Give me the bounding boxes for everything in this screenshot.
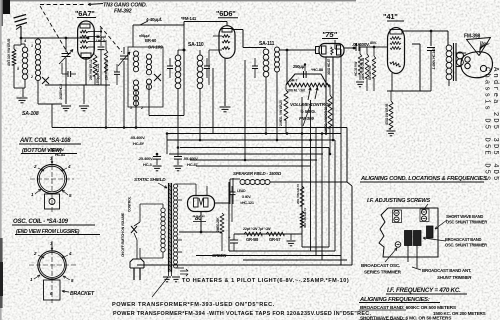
tube 6D6 envelope [219, 26, 235, 59]
tube 75 envelope [319, 44, 344, 58]
svg-text:23K ½W GR-13: 23K ½W GR-13 [105, 59, 109, 80]
svg-text:.05-400V.: .05-400V. [130, 135, 145, 140]
cap HC-3 w/ ground [153, 156, 161, 158]
svg-text:FM-399: FM-399 [299, 116, 314, 121]
svg-text:POWER TRANSFORMER*FM-394 -WITH: POWER TRANSFORMER*FM-394 -WITH VOLTAGE T… [113, 311, 371, 317]
heater wires arrow [176, 267, 185, 269]
svg-text:"80": "80" [192, 215, 206, 222]
svg-text:1350μμf HC-122: 1350μμf HC-122 [96, 63, 100, 85]
ground [65, 85, 67, 104]
power plug [130, 259, 144, 268]
svg-text:2: 2 [30, 75, 33, 79]
chassis outline [379, 208, 438, 257]
wire: antenna to grid bus y=38 [21, 37, 88, 39]
primary circuit wires [162, 204, 164, 208]
svg-text:BROADCAST BAND ANT.: BROADCAST BAND ANT. [422, 268, 471, 273]
ant coil SA-108 secondary [35, 39, 40, 44]
svg-text:"6A7": "6A7" [75, 9, 95, 18]
svg-text:SA-108: SA-108 [22, 111, 39, 117]
svg-text:≈HC-121: ≈HC-121 [240, 201, 254, 205]
svg-text:"41": "41" [383, 12, 398, 21]
resistor 20K GR-? [300, 186, 304, 206]
fixed cap near gang1 [67, 71, 69, 77]
svg-text:100 M. ¼W.: 100 M. ¼W. [287, 89, 305, 93]
transformer secondary winding [174, 184, 178, 188]
6A7 right-side parts [93, 30, 95, 38]
80 internals [194, 198, 199, 207]
cap HC-122 [100, 27, 102, 46]
pot wires [301, 97, 303, 247]
gang condenser linkage (dashed) [40, 4, 86, 6]
small caps under SA-109 [114, 71, 120, 73]
svg-text:2MEG-25K: 2MEG-25K [216, 217, 220, 232]
resistor 30K GR-74 [300, 211, 304, 227]
svg-text:80V.: 80V. [370, 41, 377, 45]
transformer primary winding [161, 208, 165, 212]
transformer core [169, 183, 172, 272]
svg-text:HC-87: HC-87 [187, 162, 199, 167]
output box right edge [351, 186, 353, 265]
volume control wiper arrows [308, 88, 311, 101]
svg-text:I.F. FREQUENCY = 470 KC.: I.F. FREQUENCY = 470 KC. [387, 287, 461, 294]
svg-text:GR-5B: GR-5B [246, 237, 258, 242]
svg-text:.01-400V.: .01-400V. [352, 42, 370, 47]
osc coil bracket [44, 280, 61, 300]
svg-text:CONTROL: CONTROL [128, 197, 132, 212]
svg-text:SA-110: SA-110 [188, 42, 204, 48]
svg-text:5: 5 [17, 67, 19, 71]
arrow from caption to transformer [152, 277, 168, 297]
shield box SA-109 [128, 47, 163, 107]
svg-text:25K ½W GR-12: 25K ½W GR-12 [89, 59, 93, 80]
svg-text:"6D6": "6D6" [216, 9, 236, 18]
svg-text:ON OFF SWITCH ON VOLUME: ON OFF SWITCH ON VOLUME [121, 212, 125, 257]
svg-text:OSC. SHUNT TRIMMER: OSC. SHUNT TRIMMER [445, 243, 487, 248]
svg-text:.1-400V. HC-140: .1-400V. HC-140 [432, 48, 436, 70]
electrolytic cap + [230, 239, 238, 241]
svg-text:Andrea 2D5 3D5 4D5: Andrea 2D5 3D5 4D5 [491, 67, 499, 182]
svg-text:GREEN: GREEN [212, 253, 227, 258]
svg-text:SHORT WAVE BAND: SHORT WAVE BAND [446, 214, 483, 219]
SW osc shunt trimmer [427, 226, 434, 238]
svg-text:GR-48 ½W: GR-48 ½W [368, 65, 372, 80]
svg-text:POWER TRANSFORMER*FM-393-USED: POWER TRANSFORMER*FM-393-USED ON"D5"REC. [112, 302, 275, 308]
svg-text:.25-400V.: .25-400V. [138, 156, 153, 161]
svg-text:LEAD: LEAD [237, 189, 246, 193]
75 grid wire [280, 49, 316, 51]
svg-text:GR-57: GR-57 [269, 237, 281, 242]
rectifier 80 plate wires [176, 183, 197, 185]
svg-text:3 40V.: 3 40V. [242, 195, 251, 199]
svg-text:5: 5 [130, 106, 132, 110]
svg-text:Chassis D5 D5E D5S: Chassis D5 D5E D5S [483, 67, 491, 182]
resistor GR-12 [93, 55, 97, 76]
75 internals [322, 46, 327, 54]
padder X [154, 74, 161, 81]
6D6 grid/cathode wires left [213, 35, 222, 37]
svg-text:.00025 HC-6: .00025 HC-6 [59, 84, 63, 100]
svg-text:ANT. 10K ½W GR-59: ANT. 10K ½W GR-59 [7, 38, 11, 66]
diode load (trapezoid) [286, 74, 327, 85]
6D6 plate wire [232, 29, 243, 31]
speaker magnet [461, 52, 493, 78]
tube 41 envelope [388, 28, 405, 74]
svg-text:470Ω 1W GR-55: 470Ω 1W GR-55 [385, 103, 389, 125]
svg-text:ANT. COIL *SA-108: ANT. COIL *SA-108 [19, 138, 71, 144]
junction dots [177, 146, 180, 149]
6D6 cathode ground [224, 58, 226, 106]
75 pin drops [325, 57, 327, 134]
svg-text:"75": "75" [322, 30, 337, 39]
svg-text:BRACKET: BRACKET [70, 291, 95, 297]
svg-text:SA-111: SA-111 [259, 41, 275, 47]
tube 6A7 envelope [78, 21, 95, 59]
svg-text:300Ω HC-67: 300Ω HC-67 [327, 59, 331, 75]
svg-text:2MEG. ½W GR-23: 2MEG. ½W GR-23 [324, 107, 328, 132]
6D6 internals [222, 29, 232, 33]
svg-text:TO HEATERS & 1 PILOT LIGHT(6-: TO HEATERS & 1 PILOT LIGHT(6-8V.~-.25AMP… [182, 278, 349, 284]
svg-text:4-40μμf.: 4-40μμf. [146, 17, 162, 22]
svg-text:I.F. ADJUSTING SCREWS: I.F. ADJUSTING SCREWS [367, 198, 431, 204]
tuning cap (gang 2) [123, 47, 125, 54]
BC series trimmer screw [395, 242, 401, 248]
svg-text:SHUNT TRIMMER: SHUNT TRIMMER [437, 275, 472, 280]
svg-text:BR-60: BR-60 [145, 38, 157, 43]
wire: cap top lead [430, 31, 432, 46]
scan artifact: left edge streak [0, 0, 2, 320]
svg-text:ALIGNING COND. LOCATIONS & FR: ALIGNING COND. LOCATIONS & FREQUENCIES [360, 176, 487, 182]
svg-text:22μf ¼W 7μf ¼W: 22μf ¼W 7μf ¼W [243, 227, 271, 231]
svg-text:*FM-141: *FM-141 [181, 16, 197, 21]
wires under 6A7 [45, 84, 110, 86]
bus lines [167, 133, 341, 135]
svg-text:SPEAKER FIELD - 1500Ω: SPEAKER FIELD - 1500Ω [233, 171, 282, 176]
svg-text:240K ½W GR-44: 240K ½W GR-44 [361, 58, 365, 80]
resistor 2MEG-25K [221, 203, 223, 212]
transformer bottom grounds [168, 272, 170, 276]
svg-text:1500 KC. OR 200 METERS: 1500 KC. OR 200 METERS [433, 311, 486, 316]
antenna [20, 26, 22, 38]
ground [290, 234, 292, 240]
wire ladder right [315, 128, 317, 256]
svg-text:STATIC SHIELD: STATIC SHIELD [134, 177, 166, 182]
svg-text:BROADCAST OSC.: BROADCAST OSC. [361, 263, 400, 268]
svg-text:1: 1 [31, 44, 33, 48]
svg-text:HC-3: HC-3 [143, 162, 153, 167]
svg-text:30K ⅓W GR-74: 30K ⅓W GR-74 [303, 208, 307, 228]
ground [83, 85, 85, 104]
resistor 23K [104, 50, 108, 72]
osc coil windings [133, 51, 138, 56]
svg-text:20K ½W GR-73: 20K ½W GR-73 [296, 184, 300, 204]
75 plate wire [344, 47, 356, 49]
6A7 grid exit wires [88, 31, 101, 33]
41 internals [390, 30, 402, 35]
wire: 41 screen drop [412, 43, 420, 45]
bottom bus lines [302, 246, 329, 248]
padder X [42, 77, 49, 84]
6A7 internals [80, 24, 90, 28]
cap HC-140 [427, 47, 435, 49]
6D6 top cap wire [226, 22, 228, 26]
ground (ant coil) [22, 88, 24, 97]
svg-text:2 MEG. ½W GR-25: 2 MEG. ½W GR-25 [279, 100, 283, 126]
80 output wire [215, 202, 230, 204]
svg-text:*HC-88: *HC-88 [311, 67, 324, 72]
resistor 2MEG GR-25 [284, 90, 288, 120]
75 grid cap nose [316, 47, 320, 54]
tuning cap (gang 1) [65, 38, 67, 52]
41 bottom wires [391, 73, 393, 91]
resistor GR-59 (ant shunt) [20, 38, 22, 45]
BC osc shunt trimmers [405, 231, 413, 246]
svg-text:FM-392: FM-392 [114, 9, 132, 15]
resistor cluster (41 grid) [359, 47, 361, 54]
svg-text:OSC. COIL - *SA-109: OSC. COIL - *SA-109 [13, 219, 69, 225]
svg-text:SERIES TRIMMER: SERIES TRIMMER [364, 270, 402, 275]
tube 80 envelope [188, 196, 215, 212]
svg-text:SHORTWAVE BAND: 6 MC. OR 50: SHORTWAVE BAND: 6 MC. OR 50 METERS [360, 316, 452, 320]
41 plate line [402, 30, 448, 32]
on-off switch [131, 226, 137, 233]
cap HC-87 w/ ground [174, 156, 182, 158]
svg-text:GR-7: GR-7 [289, 79, 297, 83]
ant coil mounting [45, 194, 60, 209]
svg-text:OSC SHUNT TRIMMER: OSC SHUNT TRIMMER [446, 220, 487, 225]
HV center-tap line [179, 231, 222, 233]
svg-text:HC-33 ½W: HC-33 ½W [354, 62, 358, 76]
scan artifact: top edge bar [0, 0, 356, 1]
output transformer [446, 45, 452, 51]
ground bus [52, 127, 347, 129]
field box outline [232, 178, 234, 204]
secondary taps [178, 199, 183, 201]
resistor GR-55 w/ ground [390, 91, 392, 101]
80 filament drop [200, 212, 202, 232]
IF trimmer screws (right pair) [421, 209, 426, 214]
svg-text:BROADCAST BAND: BROADCAST BAND [445, 237, 482, 242]
scan artifact: left edge bar [0, 238, 3, 308]
ant coil SA-108 primary [24, 44, 26, 47]
IF trimmer screws (left pair) [394, 210, 399, 215]
top wire to trimmer FM-141 [133, 24, 184, 26]
bus drop wires [166, 134, 168, 155]
svg-text:2: 2 [140, 106, 143, 110]
resistor 2MEG GR-23 [329, 85, 331, 95]
svg-text:HC-8Y: HC-8Y [133, 141, 145, 146]
svg-text:.05-400V.: .05-400V. [183, 156, 198, 161]
